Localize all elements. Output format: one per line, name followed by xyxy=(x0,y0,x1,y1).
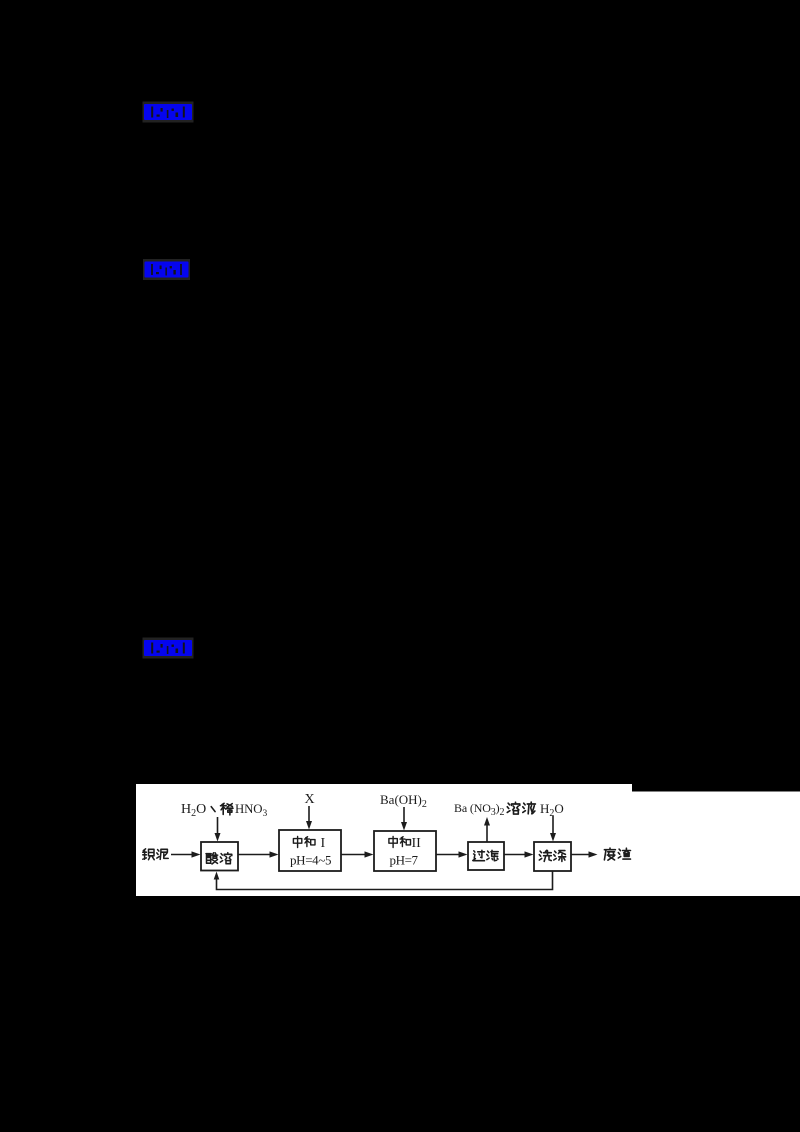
wire arrow Ba(OH)2 down into 中和II xyxy=(401,807,407,831)
wire arrow 中和II to 过滤 xyxy=(437,851,468,857)
recycle wire from 洗涤 bottom back to 酸溶 bottom xyxy=(214,871,553,890)
svg-text:pH=4~5: pH=4~5 xyxy=(290,853,331,868)
input label H2O、稀HNO3 xyxy=(181,802,267,819)
wire arrow 过滤 up to Ba(NO3)2 溶液 xyxy=(484,817,490,842)
svg-text:I: I xyxy=(321,836,326,851)
svg-text:X: X xyxy=(305,792,315,807)
wire arrow 酸溶 to 中和I xyxy=(239,851,279,857)
box 中和I pH=4~5 (neutralization I) xyxy=(279,830,341,871)
box 酸溶 (acid dissolving) xyxy=(201,842,238,871)
blue section label 3 (detail tag) xyxy=(143,638,194,659)
blue section label 2 (analysis tag) xyxy=(143,259,190,280)
output label Ba(NO3)2 溶液 xyxy=(454,801,535,818)
node label 废渣 (waste residue) xyxy=(604,848,630,860)
box 中和II pH=7 (neutralization II) xyxy=(374,831,436,871)
svg-text:II: II xyxy=(412,836,422,851)
node label 钡泥 (barium mud) xyxy=(143,849,168,860)
svg-text:pH=7: pH=7 xyxy=(390,853,419,868)
box 洗涤 (washing) xyxy=(534,842,571,871)
blue section label 1 (answer tag) xyxy=(143,102,194,123)
wire arrow 洗涤 to 废渣 xyxy=(572,851,598,857)
white diagram background panel xyxy=(136,784,800,896)
box 过滤 (filtration) xyxy=(468,842,504,870)
wire arrow 过滤 to 洗涤 xyxy=(505,851,534,857)
wire arrow H2O/稀HNO3 down into 酸溶 xyxy=(215,817,221,842)
wire arrow H2O down into 洗涤 xyxy=(550,816,556,842)
wire arrow 中和I to 中和II xyxy=(342,851,374,857)
black notch over top-right of panel xyxy=(632,784,800,792)
wire arrow X down into 中和I xyxy=(306,806,312,830)
wire arrow 钡泥 to 酸溶 xyxy=(171,851,201,857)
